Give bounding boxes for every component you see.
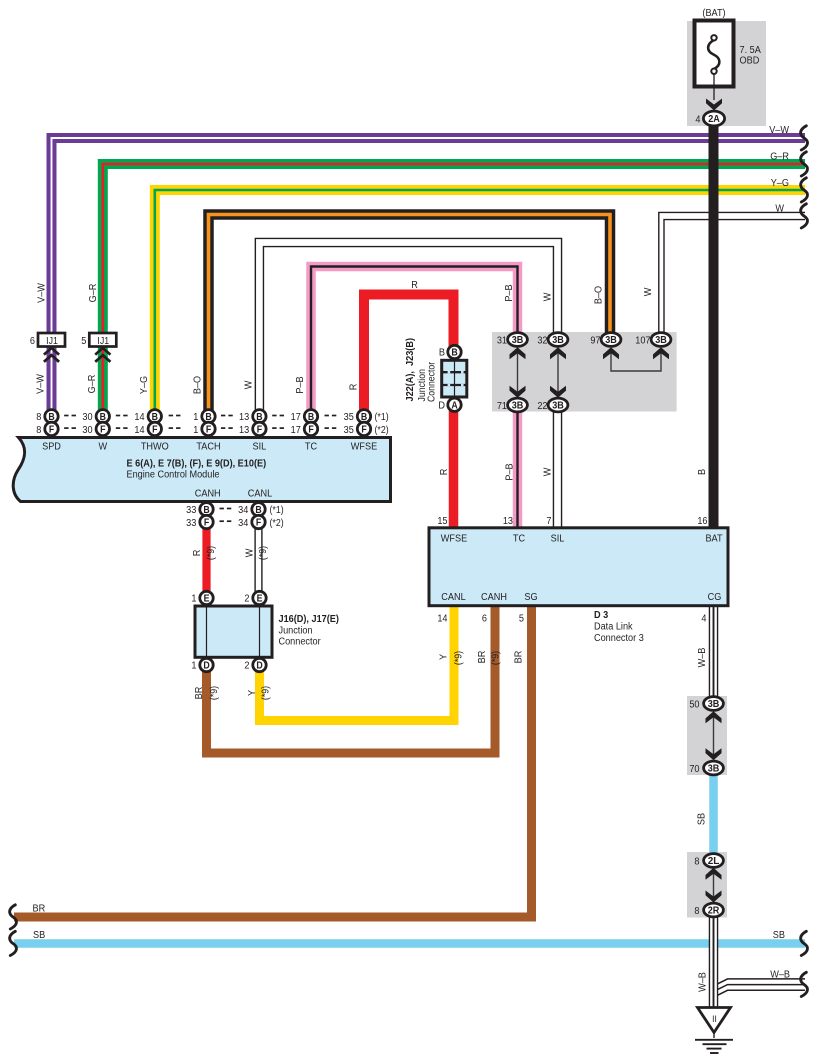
svg-text:13: 13 [503, 516, 514, 528]
svg-text:Y: Y [438, 654, 450, 661]
svg-text:3B: 3B [512, 401, 524, 412]
svg-text:(*9): (*9) [257, 546, 269, 560]
svg-text:W: W [642, 287, 654, 296]
svg-text:G–R: G–R [86, 375, 98, 394]
svg-text:E: E [204, 592, 210, 604]
svg-text:30: 30 [82, 412, 93, 424]
svg-text:2L: 2L [708, 856, 720, 867]
svg-text:BR: BR [193, 687, 205, 700]
svg-text:D 3: D 3 [594, 610, 609, 622]
svg-text:D: D [256, 659, 263, 671]
svg-text:33: 33 [186, 505, 197, 517]
svg-text:(*1): (*1) [375, 411, 389, 423]
svg-text:BR: BR [513, 651, 525, 664]
svg-text:1: 1 [193, 424, 198, 436]
svg-text:4: 4 [701, 613, 707, 625]
svg-text:22: 22 [537, 400, 547, 412]
svg-text:33: 33 [186, 517, 197, 529]
svg-text:WFSE: WFSE [351, 441, 378, 453]
svg-text:4: 4 [695, 114, 701, 126]
svg-text:17: 17 [291, 424, 301, 436]
svg-text:W: W [775, 203, 784, 215]
svg-text:IJ1: IJ1 [46, 334, 58, 346]
svg-text:W–B: W–B [696, 647, 708, 667]
svg-text:8: 8 [694, 905, 700, 917]
svg-text:32: 32 [537, 335, 547, 347]
svg-text:P–B: P–B [503, 284, 515, 302]
svg-text:2A: 2A [708, 114, 720, 125]
svg-text:Y: Y [246, 690, 258, 697]
svg-text:CANH: CANH [481, 592, 507, 604]
svg-text:2R: 2R [708, 906, 720, 917]
svg-text:P–B: P–B [294, 376, 306, 394]
svg-text:J22(A), J23(B): J22(A), J23(B) [404, 338, 416, 401]
svg-text:TACH: TACH [196, 441, 220, 453]
svg-text:B–O: B–O [192, 375, 204, 394]
svg-text:3B: 3B [512, 335, 524, 346]
svg-text:3B: 3B [655, 335, 667, 346]
svg-text:35: 35 [344, 412, 355, 424]
svg-text:3B: 3B [552, 335, 564, 346]
svg-text:3B: 3B [552, 401, 564, 412]
svg-text:SB: SB [696, 812, 708, 825]
svg-text:B: B [696, 469, 708, 476]
svg-text:34: 34 [238, 505, 249, 517]
svg-text:13: 13 [239, 412, 250, 424]
svg-text:R: R [411, 280, 418, 292]
svg-text:F: F [206, 423, 212, 435]
svg-text:B: B [439, 347, 446, 359]
svg-text:W: W [98, 441, 107, 453]
svg-text:30: 30 [82, 424, 93, 436]
svg-text:SB: SB [773, 930, 786, 942]
svg-text:V–W: V–W [769, 125, 790, 137]
svg-text:W–B: W–B [697, 972, 709, 992]
svg-text:8: 8 [36, 424, 42, 436]
svg-text:B: B [361, 410, 368, 422]
svg-text:70: 70 [689, 763, 700, 775]
svg-text:Y–G: Y–G [138, 376, 150, 394]
svg-text:16: 16 [697, 516, 708, 528]
svg-text:CANH: CANH [195, 488, 221, 500]
svg-text:14: 14 [134, 412, 145, 424]
svg-text:W: W [542, 292, 554, 301]
svg-text:F: F [152, 423, 158, 435]
svg-text:(*1): (*1) [270, 504, 284, 516]
svg-text:(*2): (*2) [375, 423, 389, 435]
svg-text:W–B: W–B [770, 969, 790, 981]
svg-text:SPD: SPD [42, 441, 61, 453]
svg-text:5: 5 [81, 335, 87, 347]
svg-text:CANL: CANL [441, 592, 466, 604]
svg-text:B: B [256, 410, 263, 422]
svg-text:1: 1 [191, 593, 196, 605]
svg-text:P–B: P–B [504, 463, 516, 481]
svg-text:B: B [205, 410, 212, 422]
svg-text:3B: 3B [708, 699, 720, 710]
svg-text:R: R [438, 469, 450, 476]
svg-text:17: 17 [291, 412, 301, 424]
svg-text:Connector: Connector [279, 636, 322, 648]
svg-text:B–O: B–O [593, 285, 605, 304]
svg-text:(*9): (*9) [489, 651, 501, 665]
svg-text:R: R [348, 384, 360, 391]
svg-text:50: 50 [689, 699, 700, 711]
svg-text:B: B [100, 410, 107, 422]
svg-text:8: 8 [694, 856, 700, 868]
svg-text:A: A [451, 399, 458, 411]
svg-text:II: II [712, 1014, 717, 1025]
svg-text:Engine Control Module: Engine Control Module [127, 469, 220, 481]
svg-text:F: F [256, 516, 262, 528]
svg-text:B: B [308, 410, 315, 422]
svg-text:W: W [542, 467, 554, 476]
svg-text:F: F [257, 423, 263, 435]
svg-text:OBD: OBD [740, 55, 760, 67]
svg-text:G–R: G–R [87, 284, 99, 303]
svg-text:1: 1 [191, 660, 196, 672]
svg-text:(*9): (*9) [452, 651, 464, 665]
svg-text:(BAT): (BAT) [702, 8, 725, 20]
svg-text:31: 31 [497, 335, 507, 347]
svg-text:THWO: THWO [141, 441, 169, 453]
svg-text:J16(D), J17(E): J16(D), J17(E) [279, 614, 339, 626]
svg-text:G–R: G–R [770, 151, 789, 163]
svg-text:6: 6 [482, 613, 488, 625]
svg-text:2: 2 [244, 593, 249, 605]
svg-text:SB: SB [33, 930, 46, 942]
svg-text:V–W: V–W [35, 373, 47, 394]
svg-text:CANL: CANL [248, 488, 273, 500]
svg-text:BR: BR [476, 651, 488, 664]
svg-text:WFSE: WFSE [441, 533, 468, 545]
svg-text:Connector: Connector [426, 362, 437, 402]
svg-text:B: B [255, 503, 262, 515]
svg-text:B: B [451, 346, 458, 358]
svg-text:(*2): (*2) [270, 516, 284, 528]
svg-text:IJ1: IJ1 [97, 334, 109, 346]
svg-text:CG: CG [708, 592, 722, 604]
svg-text:8: 8 [36, 412, 42, 424]
svg-text:R: R [191, 550, 203, 557]
svg-text:BAT: BAT [705, 533, 722, 545]
svg-text:107: 107 [635, 335, 650, 347]
svg-text:(*9): (*9) [208, 686, 220, 700]
svg-text:14: 14 [134, 424, 145, 436]
svg-text:3B: 3B [605, 335, 617, 346]
svg-text:71: 71 [497, 400, 507, 412]
svg-text:6: 6 [30, 335, 36, 347]
svg-text:14: 14 [437, 613, 448, 625]
svg-text:F: F [361, 423, 367, 435]
svg-text:Data Link: Data Link [594, 621, 633, 633]
svg-text:Connector 3: Connector 3 [594, 633, 644, 645]
svg-text:TC: TC [513, 533, 525, 545]
svg-text:V–W: V–W [36, 282, 48, 303]
svg-text:E 6(A), E 7(B), (F), E 9(D), E: E 6(A), E 7(B), (F), E 9(D), E10(E) [127, 458, 267, 470]
svg-text:B: B [152, 410, 159, 422]
svg-text:SIL: SIL [253, 441, 267, 453]
svg-text:B: B [48, 410, 55, 422]
svg-text:34: 34 [238, 517, 249, 529]
svg-text:5: 5 [519, 613, 525, 625]
svg-text:2: 2 [244, 660, 249, 672]
svg-text:1: 1 [193, 412, 198, 424]
svg-text:B: B [203, 503, 210, 515]
svg-text:E: E [257, 592, 263, 604]
svg-text:35: 35 [344, 424, 355, 436]
svg-text:13: 13 [239, 424, 250, 436]
svg-text:D: D [438, 400, 445, 412]
svg-text:(*9): (*9) [259, 686, 271, 700]
svg-text:3B: 3B [708, 764, 720, 775]
svg-text:F: F [100, 423, 106, 435]
svg-text:(*9): (*9) [205, 546, 217, 560]
svg-text:97: 97 [590, 335, 600, 347]
svg-text:BR: BR [33, 903, 46, 915]
svg-text:Y–G: Y–G [771, 178, 789, 190]
svg-text:F: F [204, 516, 210, 528]
svg-text:Junction: Junction [279, 625, 313, 637]
svg-text:TC: TC [305, 441, 317, 453]
svg-text:SG: SG [524, 592, 537, 604]
svg-text:D: D [203, 659, 210, 671]
svg-text:F: F [49, 423, 55, 435]
svg-text:W: W [244, 548, 256, 557]
svg-text:7: 7 [546, 516, 551, 528]
svg-text:F: F [308, 423, 314, 435]
svg-text:15: 15 [437, 516, 448, 528]
svg-text:W: W [243, 380, 255, 389]
svg-text:SIL: SIL [551, 533, 565, 545]
